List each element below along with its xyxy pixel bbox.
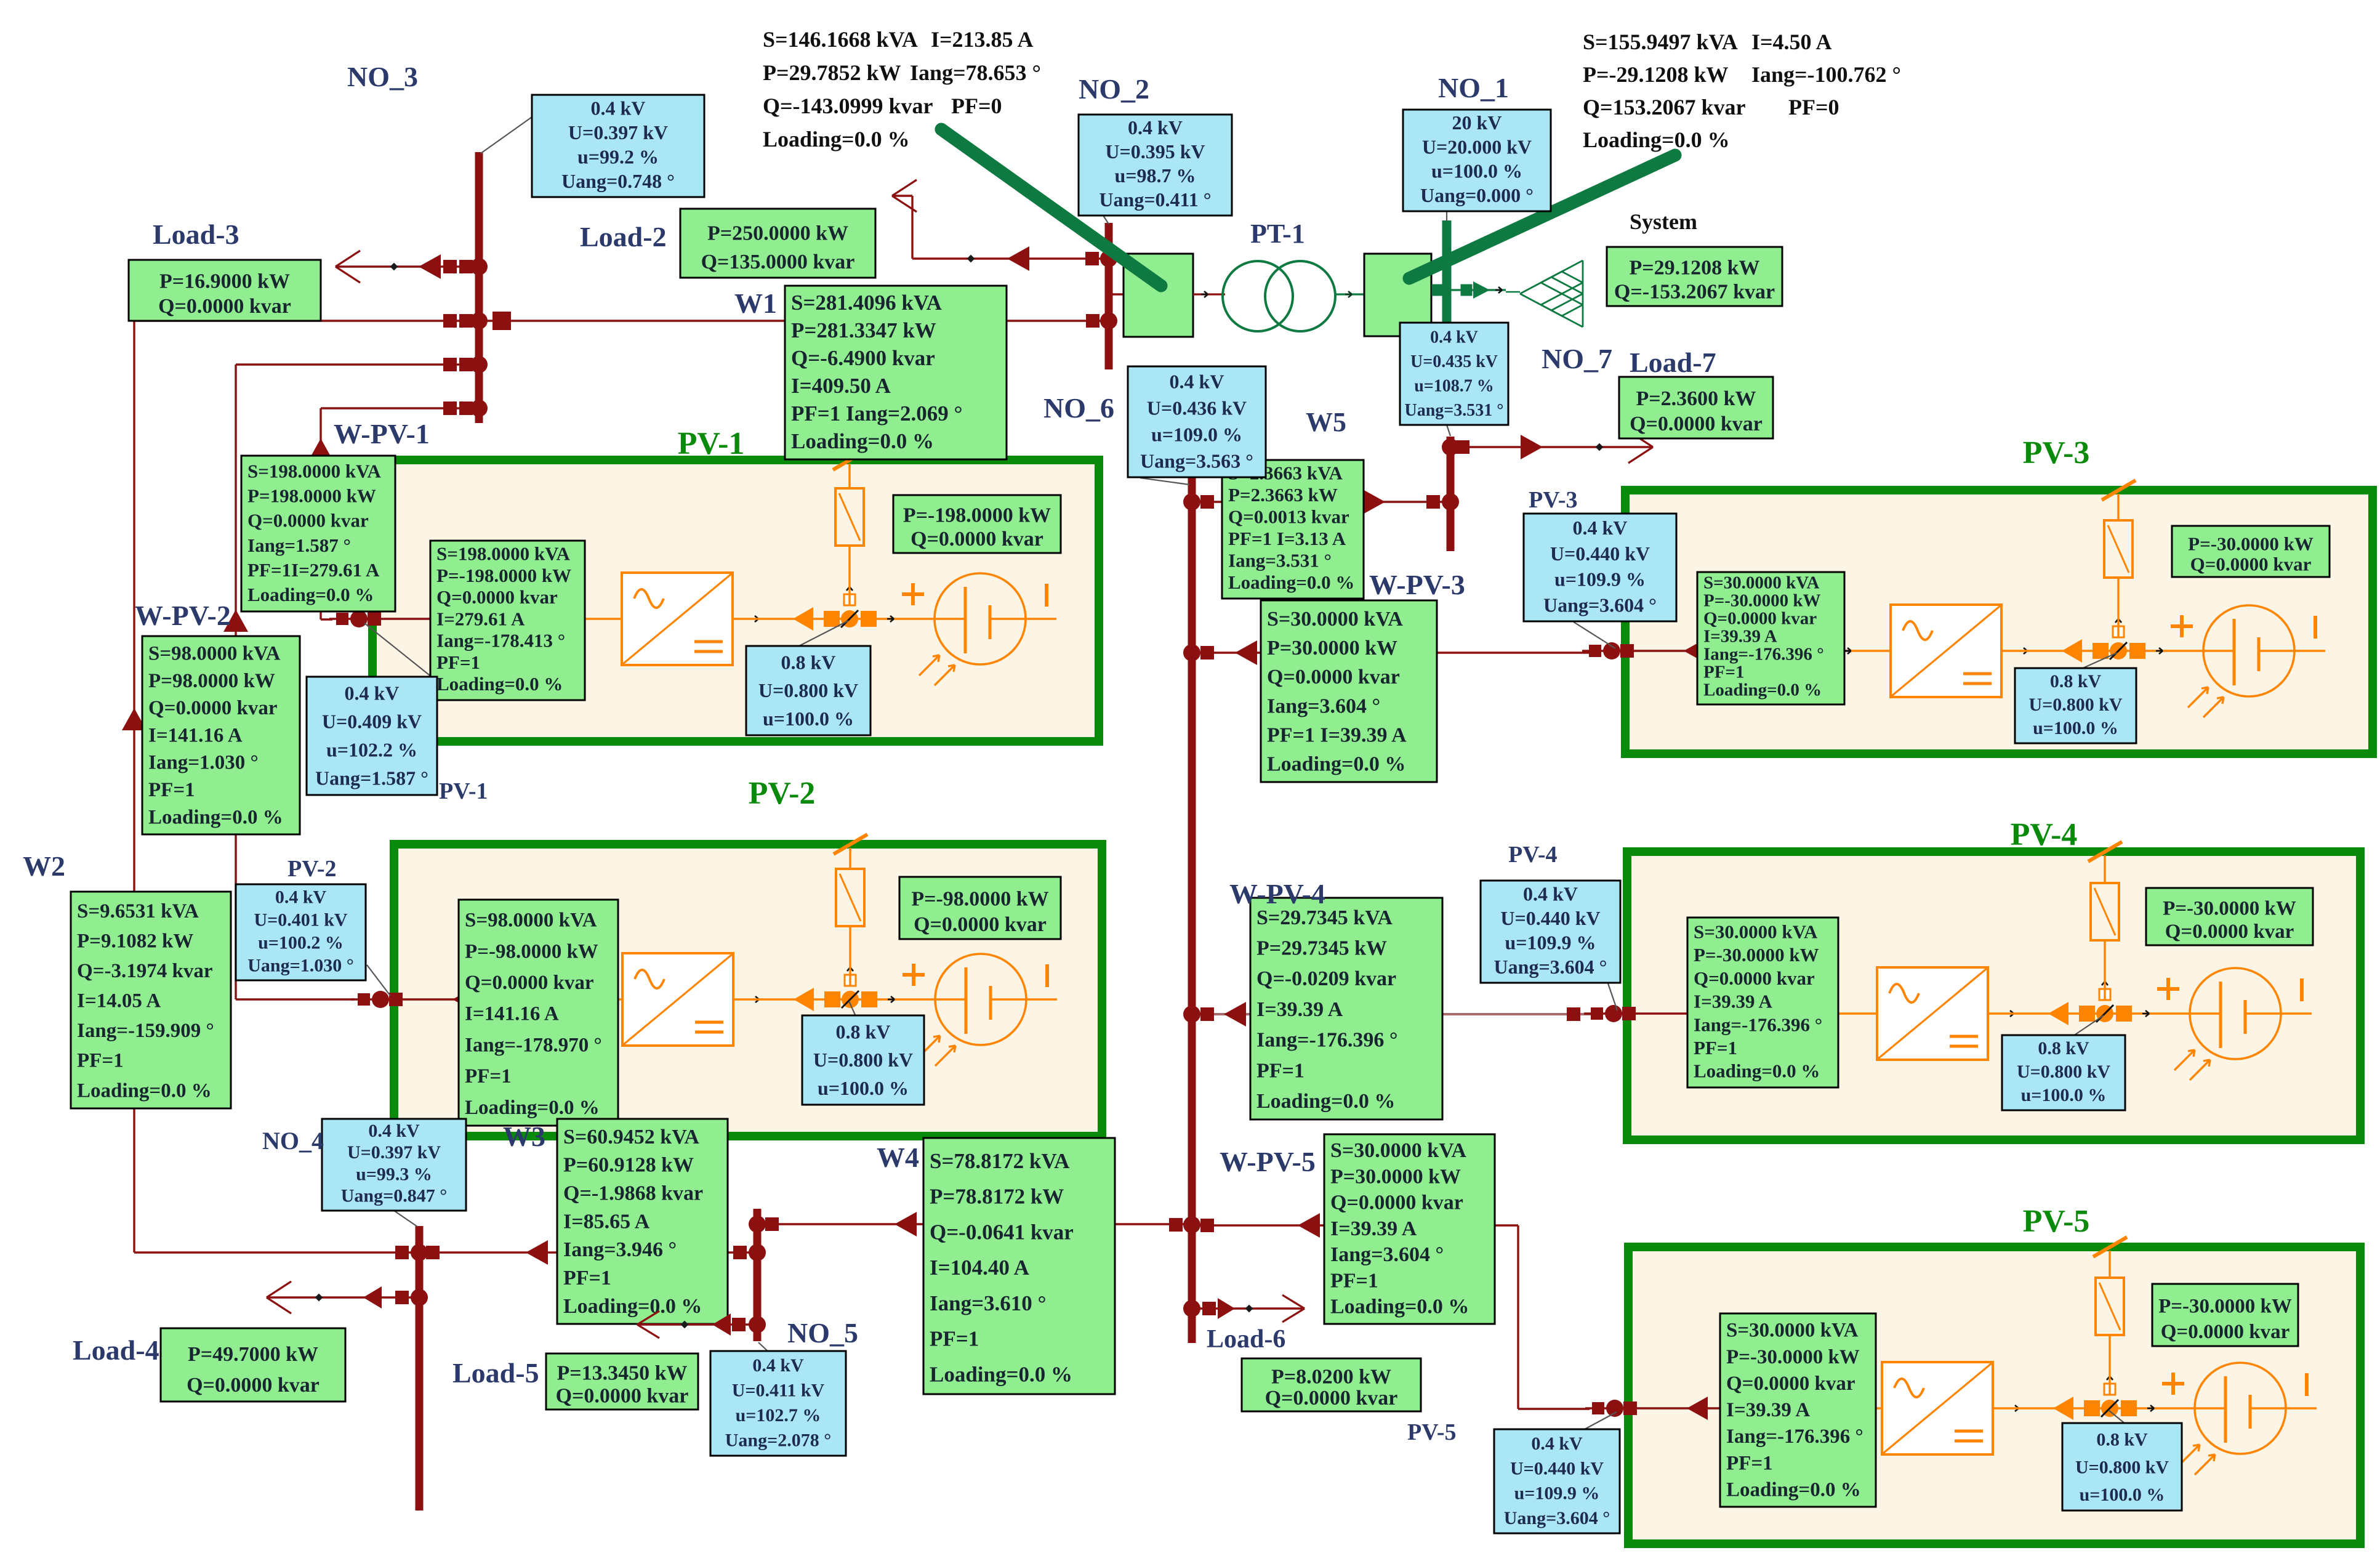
svg-text:W1: W1 — [734, 288, 777, 319]
svg-text:Q=0.0000 kvar: Q=0.0000 kvar — [465, 972, 593, 994]
svg-text:U=0.800 kV: U=0.800 kV — [813, 1049, 913, 1071]
leader PV-1 0.8kV — [798, 621, 848, 647]
leader PV-5 0.8kV — [2109, 1410, 2125, 1424]
svg-text:Q=0.0013 kvar: Q=0.0013 kvar — [1228, 506, 1349, 528]
wire PV-4 inverter to PV array — [2007, 1013, 2014, 1015]
value label PV-3 output — [1697, 572, 1844, 704]
arrow W-PV-2 direction — [223, 610, 248, 632]
bus NO_1 20kV — [1442, 220, 1452, 345]
svg-text:Load-4: Load-4 — [73, 1334, 159, 1366]
svg-text:Q=-1.9868 kvar: Q=-1.9868 kvar — [563, 1182, 703, 1204]
value label W-PV-4 — [1250, 898, 1442, 1119]
value label System — [1607, 247, 1782, 306]
svg-text:P=13.3450 kW: P=13.3450 kW — [557, 1362, 687, 1385]
voltage label NO_6 — [1128, 366, 1266, 477]
svg-text:Load-2: Load-2 — [580, 221, 667, 252]
svg-text:Loading=0.0 %: Loading=0.0 % — [1267, 753, 1405, 776]
svg-text:S=155.9497 kVA: S=155.9497 kVA — [1583, 30, 1738, 54]
svg-text:0.8 kV: 0.8 kV — [781, 651, 836, 673]
svg-text:PF=1: PF=1 — [1256, 1059, 1305, 1082]
svg-text:Uang=0.748 °: Uang=0.748 ° — [561, 170, 675, 192]
switch PV-5 disconnector slash — [2093, 1237, 2127, 1257]
svg-text:Loading=0.0 %: Loading=0.0 % — [1583, 127, 1730, 152]
current mark I PV-2 — [1045, 964, 1049, 987]
wire W4 NO_5 to NO_6 — [761, 1223, 1188, 1225]
value label W-PV-2 — [142, 636, 300, 834]
svg-text:20 kV: 20 kV — [1452, 111, 1502, 134]
leader PV-2 bus — [367, 965, 390, 996]
svg-text:I=39.39 A: I=39.39 A — [1703, 627, 1777, 647]
fuse PV-5 — [2096, 1278, 2124, 1335]
svg-text:0.4 kV: 0.4 kV — [368, 1121, 420, 1141]
svg-text:u=98.7 %: u=98.7 % — [1114, 164, 1196, 187]
svg-text:Loading=0.0 %: Loading=0.0 % — [1694, 1060, 1820, 1082]
svg-text:P=2.3663 kW: P=2.3663 kW — [1228, 484, 1338, 506]
svg-text:Q=0.0000 kvar: Q=0.0000 kvar — [148, 697, 277, 719]
svg-text:PV-1: PV-1 — [678, 426, 745, 461]
svg-text:S=98.0000 kVA: S=98.0000 kVA — [465, 910, 597, 932]
svg-text:0.4 kV: 0.4 kV — [1573, 517, 1628, 539]
node W4 at NO_5 — [765, 1217, 779, 1231]
fuse PV-3 — [2104, 520, 2133, 578]
svg-text:0.4 kV: 0.4 kV — [1128, 116, 1183, 139]
PV array source PV-2 — [935, 954, 1026, 1045]
svg-text:PF=1I=279.61 A: PF=1I=279.61 A — [247, 559, 380, 581]
terminal box PT-1 HV — [1364, 254, 1431, 336]
node PV-4 terminal junction — [1591, 1007, 1603, 1020]
wire W-PV-3 — [1196, 651, 1594, 653]
svg-text:I=104.40 A: I=104.40 A — [930, 1256, 1030, 1280]
voltage label PV-4 LV — [1481, 881, 1620, 983]
svg-text:S=60.9452 kVA: S=60.9452 kVA — [563, 1126, 699, 1148]
value label Load-6 — [1242, 1358, 1421, 1411]
arrow PV-5 power flow — [1687, 1397, 1708, 1420]
svg-text:Iang=-176.396 °: Iang=-176.396 ° — [1703, 645, 1824, 664]
svg-text:Loading=0.0 %: Loading=0.0 % — [1228, 571, 1354, 593]
wire PV-5 riser — [2109, 1251, 2110, 1395]
PV enclosure PV-5 — [1628, 1247, 2360, 1544]
svg-text:PV-4: PV-4 — [1508, 842, 1558, 868]
svg-text:0.4 kV: 0.4 kV — [1170, 370, 1224, 392]
svg-text:W3: W3 — [503, 1121, 545, 1152]
svg-text:Q=-153.2067 kvar: Q=-153.2067 kvar — [1614, 281, 1775, 304]
value label Load-5 — [546, 1353, 698, 1410]
svg-text:U=0.411 kV: U=0.411 kV — [732, 1381, 825, 1401]
svg-text:P=-29.1208 kW: P=-29.1208 kW — [1583, 62, 1729, 87]
node W-PV-1 at NO_3 — [443, 401, 457, 415]
bus NO_5 — [754, 1209, 762, 1341]
svg-text:Q=0.0000 kvar: Q=0.0000 kvar — [1267, 666, 1400, 688]
svg-text:Q=0.0000 kvar: Q=0.0000 kvar — [436, 586, 558, 608]
arrow W5 direction — [1363, 490, 1385, 514]
external grid symbol System — [1520, 260, 1583, 294]
svg-text:PF=0: PF=0 — [951, 94, 1002, 118]
arrow PV-2 power flow — [452, 988, 473, 1011]
switch PV-4 junction — [2048, 1002, 2068, 1025]
svg-text:Uang=2.078 °: Uang=2.078 ° — [725, 1430, 831, 1451]
wire W-PV-5 elbow — [1495, 1224, 1518, 1226]
wire W2 vertical — [133, 321, 135, 1252]
wire PV-1 riser — [848, 464, 850, 605]
svg-text:P=29.1208 kW: P=29.1208 kW — [1629, 256, 1759, 279]
wire PV-1 inverter to PV array — [752, 618, 758, 620]
value label PV-1 P/Q — [893, 495, 1061, 553]
svg-text:U=0.395 kV: U=0.395 kV — [1105, 140, 1205, 163]
arrow W2 direction — [122, 708, 147, 730]
sun rays PV-5 — [2179, 1445, 2200, 1465]
svg-text:PF=1: PF=1 — [563, 1267, 611, 1289]
svg-text:PF=1: PF=1 — [148, 779, 195, 801]
voltage label PV-2 0.8kV — [802, 1015, 924, 1105]
voltage label PV-3 0.8kV — [2015, 668, 2136, 743]
svg-text:u=100.2 %: u=100.2 % — [258, 932, 344, 953]
svg-text:Uang=0.000 °: Uang=0.000 ° — [1420, 184, 1534, 206]
wire W1 NO_3 to NO_2 — [483, 320, 1105, 321]
leader NO_5 — [758, 1342, 768, 1352]
plus polarity mark PV-3 — [2171, 624, 2193, 628]
breaker W-PV-4 mid — [1567, 1007, 1580, 1021]
svg-text:Q=135.0000 kvar: Q=135.0000 kvar — [701, 251, 855, 273]
out-of-service slash at NO_1 — [1409, 155, 1675, 278]
svg-text:PV-5: PV-5 — [2023, 1204, 2090, 1239]
svg-text:Uang=0.847 °: Uang=0.847 ° — [341, 1186, 447, 1206]
svg-text:P=60.9128 kW: P=60.9128 kW — [563, 1154, 694, 1177]
node W3 at NO_5 — [733, 1246, 747, 1259]
wire PV-2 inverter to PV array — [752, 999, 759, 1001]
svg-text:u=109.0 %: u=109.0 % — [1151, 423, 1242, 445]
svg-text:PV-2: PV-2 — [287, 856, 337, 882]
leader NO_6 — [1140, 478, 1189, 485]
wire Load-2 feeder arrow — [912, 257, 1107, 259]
leader NO_4 — [394, 1211, 417, 1227]
svg-text:u=109.9 %: u=109.9 % — [1505, 931, 1596, 953]
svg-text:System: System — [1630, 209, 1697, 234]
wire PV-5 inverter to PV array — [2012, 1408, 2019, 1410]
voltage label PV-2 LV — [236, 884, 366, 980]
svg-text:Uang=1.587 °: Uang=1.587 ° — [315, 767, 428, 789]
sun rays PV-4 — [2174, 1050, 2195, 1070]
svg-text:u=102.7 %: u=102.7 % — [736, 1405, 821, 1426]
transformer PT-1 winding 2 — [1265, 261, 1335, 331]
svg-text:u=109.9 %: u=109.9 % — [1554, 568, 1646, 591]
arrow PV-1 power flow — [431, 607, 452, 631]
voltage label NO_5 — [710, 1351, 846, 1456]
svg-text:P=8.0200 kW: P=8.0200 kW — [1271, 1366, 1391, 1389]
value label Load-4 — [161, 1328, 345, 1402]
current mark I PV-3 — [2314, 616, 2317, 639]
svg-text:0.4 kV: 0.4 kV — [345, 682, 400, 704]
leader NO_3 — [481, 117, 532, 153]
voltage label NO_7 — [1400, 323, 1508, 425]
bus NO_4 — [416, 1226, 424, 1511]
svg-text:PV-3: PV-3 — [2023, 435, 2090, 470]
switch PV-2 junction — [794, 988, 814, 1011]
arrow W-PV-4 direction — [1224, 1002, 1246, 1027]
switch PV-4 disconnector slash — [2088, 842, 2122, 861]
arrow W-PV-5 direction — [1298, 1213, 1320, 1238]
arrow W4 direction — [895, 1212, 917, 1236]
svg-text:P=-30.0000 kW: P=-30.0000 kW — [1694, 944, 1819, 966]
PV enclosure PV-4 — [1627, 852, 2360, 1140]
svg-text:Loading=0.0 %: Loading=0.0 % — [1703, 680, 1822, 700]
value label W5 — [1222, 460, 1364, 599]
leader PV-3 0.8kV — [2076, 653, 2117, 671]
breaker W1 at NO_3 — [492, 312, 511, 330]
svg-text:P=-98.0000 kW: P=-98.0000 kW — [465, 940, 598, 962]
svg-text:Uang=3.604 °: Uang=3.604 ° — [1543, 594, 1657, 616]
svg-text:U=0.440 kV: U=0.440 kV — [1510, 1458, 1604, 1478]
svg-text:U=0.401 kV: U=0.401 kV — [254, 910, 347, 930]
svg-text:PF=1 I=39.39 A: PF=1 I=39.39 A — [1267, 724, 1407, 746]
wire W-PV-1 to PV-1 — [321, 618, 332, 620]
svg-text:U=0.440 kV: U=0.440 kV — [1500, 907, 1600, 929]
svg-text:0.4 kV: 0.4 kV — [1523, 882, 1578, 905]
wire PV-4 LV connection — [1584, 1012, 1838, 1014]
leader PV-4 bus — [1608, 983, 1617, 1010]
fuse PV-2 — [836, 869, 864, 926]
svg-text:S=9.6531 kVA: S=9.6531 kVA — [77, 900, 199, 922]
voltage label PV-1 0.8kV — [746, 646, 870, 735]
wire W3 NO_4 to NO_5 — [423, 1251, 755, 1253]
svg-text:Q=0.0000 kvar: Q=0.0000 kvar — [247, 510, 369, 531]
svg-text:P=2.3600 kW: P=2.3600 kW — [1636, 387, 1756, 410]
value label PV-5 P/Q — [2152, 1284, 2298, 1346]
svg-text:PF=1 I=3.13 A: PF=1 I=3.13 A — [1228, 528, 1346, 549]
svg-text:S=29.7345 kVA: S=29.7345 kVA — [1256, 906, 1393, 929]
svg-text:P=-30.0000 kW: P=-30.0000 kW — [1726, 1346, 1860, 1368]
svg-text:Q=-3.1974 kvar: Q=-3.1974 kvar — [77, 960, 212, 982]
value label PV-2 P/Q — [899, 877, 1061, 939]
svg-text:Iang=1.587 °: Iang=1.587 ° — [247, 534, 351, 556]
svg-text:Iang=-100.762 °: Iang=-100.762 ° — [1751, 62, 1901, 87]
leader NO_2 — [1103, 216, 1109, 224]
value label PV-4 output — [1687, 918, 1838, 1087]
svg-text:W2: W2 — [23, 850, 65, 882]
node W-PV-2 at NO_3 — [443, 358, 457, 371]
svg-text:I=409.50 A: I=409.50 A — [791, 374, 891, 398]
bus NO_7 — [1447, 437, 1455, 551]
wire W-PV-1 horizontal — [321, 407, 475, 409]
leader NO_7 — [1447, 425, 1450, 436]
svg-text:Uang=3.604 °: Uang=3.604 ° — [1494, 956, 1607, 978]
sun rays PV-1 — [919, 655, 939, 676]
value label Load-7 — [1619, 377, 1773, 438]
svg-text:P=29.7345 kW: P=29.7345 kW — [1256, 937, 1387, 959]
svg-text:Q=-143.0999 kvar: Q=-143.0999 kvar — [763, 94, 933, 118]
terminal box PT-1 LV — [1124, 254, 1193, 337]
node PV-2 terminal junction — [358, 993, 370, 1006]
wire PV-3 LV connection — [1582, 650, 1851, 651]
svg-text:NO_5: NO_5 — [787, 1317, 858, 1349]
svg-text:u=99.2 %: u=99.2 % — [577, 145, 659, 167]
switch PV-2 disconnector slash — [834, 834, 867, 854]
svg-text:PF=1: PF=1 — [436, 651, 480, 673]
svg-text:P=-30.0000 kW: P=-30.0000 kW — [1703, 591, 1821, 611]
svg-text:S=30.0000 kVA: S=30.0000 kVA — [1694, 921, 1818, 942]
svg-text:Q=0.0000 kvar: Q=0.0000 kvar — [1703, 609, 1817, 629]
svg-text:Load-6: Load-6 — [1207, 1325, 1285, 1353]
svg-text:PV-4: PV-4 — [2011, 817, 2078, 852]
svg-text:P=29.7852 kW: P=29.7852 kW — [763, 60, 901, 85]
svg-text:u=108.7 %: u=108.7 % — [1414, 376, 1494, 395]
sun rays PV-2 — [920, 1036, 940, 1056]
svg-text:I=39.39 A: I=39.39 A — [1330, 1217, 1417, 1240]
svg-text:NO_4: NO_4 — [262, 1127, 324, 1155]
svg-text:Q=0.0000 kvar: Q=0.0000 kvar — [914, 913, 1047, 936]
node PV-1 terminal junction — [336, 613, 348, 625]
svg-text:P=-198.0000 kW: P=-198.0000 kW — [903, 504, 1051, 527]
svg-text:I=279.61 A: I=279.61 A — [436, 608, 525, 629]
voltage label PV-5 0.8kV — [2062, 1423, 2182, 1511]
inverter PV-2 — [622, 953, 733, 1046]
svg-text:P=-30.0000 kW: P=-30.0000 kW — [2158, 1295, 2292, 1317]
svg-text:Q=0.0000 kvar: Q=0.0000 kvar — [2161, 1321, 2290, 1343]
wire PV-1 DC/AC link — [576, 618, 582, 620]
PV array source PV-4 — [2190, 968, 2281, 1059]
svg-text:PF=1: PF=1 — [1726, 1452, 1773, 1474]
wire W5 NO_6 to NO_7 — [1196, 501, 1448, 502]
leader PV-3 bus — [1574, 622, 1615, 648]
svg-text:U=0.800 kV: U=0.800 kV — [2028, 695, 2122, 715]
bus NO_6 — [1188, 477, 1196, 1343]
svg-text:S=198.0000 kVA: S=198.0000 kVA — [436, 543, 571, 565]
svg-text:PV-3: PV-3 — [1529, 487, 1578, 513]
svg-text:S=198.0000 kVA: S=198.0000 kVA — [247, 460, 382, 482]
wire W-PV-2 vertical — [235, 365, 236, 999]
leader PV-4 0.8kV — [2073, 1015, 2104, 1036]
svg-text:0.8 kV: 0.8 kV — [836, 1020, 891, 1043]
svg-text:W-PV-2: W-PV-2 — [135, 600, 231, 631]
PV array source PV-3 — [2203, 605, 2294, 696]
svg-text:PF=0: PF=0 — [1788, 95, 1839, 119]
svg-text:NO_3: NO_3 — [347, 61, 418, 92]
svg-text:u=109.9 %: u=109.9 % — [1514, 1483, 1600, 1504]
svg-text:Loading=0.0 %: Loading=0.0 % — [465, 1097, 600, 1119]
svg-text:Uang=3.604 °: Uang=3.604 ° — [1504, 1508, 1610, 1528]
svg-text:Load-3: Load-3 — [153, 219, 239, 250]
value label W1 — [785, 286, 1007, 459]
svg-text:P=78.8172 kW: P=78.8172 kW — [930, 1185, 1064, 1209]
PV array source PV-1 — [935, 573, 1026, 664]
svg-text:Loading=0.0 %: Loading=0.0 % — [930, 1362, 1072, 1386]
inverter PV-4 — [1877, 967, 1988, 1060]
voltage label NO_3 — [532, 95, 704, 197]
svg-text:W-PV-1: W-PV-1 — [334, 418, 430, 450]
svg-text:W5: W5 — [1306, 407, 1346, 437]
svg-text:Iang=3.946 °: Iang=3.946 ° — [563, 1238, 677, 1261]
value label PV-5 output — [1720, 1313, 1876, 1507]
svg-text:NO_2: NO_2 — [1079, 73, 1149, 105]
wire PV-3 riser — [2117, 494, 2119, 637]
switch PV-3 junction — [2062, 639, 2082, 663]
wire Load-5 feeder arrow — [637, 1323, 755, 1325]
wire PV-4 DC/AC link — [1831, 1013, 1838, 1015]
svg-text:U=0.397 kV: U=0.397 kV — [347, 1142, 441, 1163]
wire W-PV-2 horizontal — [236, 363, 475, 365]
value label W-PV-5 — [1324, 1134, 1495, 1324]
value label W-PV-1 — [241, 456, 395, 611]
value label W2 — [71, 892, 231, 1108]
inverter PV-3 — [1891, 605, 2001, 697]
svg-text:I=213.85 A: I=213.85 A — [931, 27, 1034, 52]
node PV-3 terminal junction — [1589, 645, 1601, 657]
svg-text:u=100.0 %: u=100.0 % — [763, 708, 854, 730]
sun rays PV-3 — [2188, 687, 2208, 708]
svg-text:Q=0.0000 kvar: Q=0.0000 kvar — [187, 1374, 320, 1397]
PV array source PV-5 — [2195, 1363, 2286, 1454]
svg-text:S=30.0000 kVA: S=30.0000 kVA — [1267, 608, 1403, 631]
svg-text:Loading=0.0 %: Loading=0.0 % — [563, 1295, 702, 1318]
svg-text:0.4 kV: 0.4 kV — [275, 887, 327, 907]
svg-text:U=0.440 kV: U=0.440 kV — [1550, 543, 1650, 565]
svg-text:PF=1: PF=1 — [465, 1065, 512, 1087]
wire PT-1 HV stub — [1335, 293, 1365, 295]
svg-text:Q=0.0000 kvar: Q=0.0000 kvar — [158, 295, 291, 318]
voltage label PV-1 LV — [307, 677, 437, 795]
PV enclosure PV-1 — [372, 460, 1099, 741]
fuse PV-4 — [2091, 883, 2119, 940]
svg-text:P=16.9000 kW: P=16.9000 kW — [159, 270, 290, 293]
svg-text:I=141.16 A: I=141.16 A — [148, 724, 243, 746]
svg-text:Loading=0.0 %: Loading=0.0 % — [791, 429, 934, 453]
svg-text:P=-30.0000 kW: P=-30.0000 kW — [2163, 897, 2296, 919]
svg-text:U=0.436 kV: U=0.436 kV — [1147, 397, 1247, 419]
current mark I PV-4 — [2300, 978, 2304, 1001]
switch PV-3 disconnector slash — [2102, 480, 2136, 500]
svg-text:S=30.0000 kVA: S=30.0000 kVA — [1703, 573, 1819, 593]
svg-text:U=0.800 kV: U=0.800 kV — [2075, 1457, 2169, 1477]
svg-text:Loading=0.0 %: Loading=0.0 % — [247, 584, 374, 605]
svg-text:0.8 kV: 0.8 kV — [2096, 1430, 2148, 1450]
svg-text:PF=1: PF=1 — [1694, 1037, 1737, 1059]
svg-text:I=85.65 A: I=85.65 A — [563, 1210, 650, 1233]
voltage label NO_2 — [1079, 115, 1232, 216]
voltage label NO_4 — [322, 1119, 466, 1211]
svg-text:PF=1: PF=1 — [1703, 663, 1744, 682]
svg-text:0.4 kV: 0.4 kV — [752, 1355, 804, 1376]
svg-text:Iang=-176.396 °: Iang=-176.396 ° — [1694, 1014, 1822, 1035]
wire Load-6 feeder arrow — [1196, 1307, 1305, 1309]
svg-text:P=-98.0000 kW: P=-98.0000 kW — [911, 887, 1048, 910]
svg-text:PT-1: PT-1 — [1250, 219, 1305, 249]
svg-text:Load-5: Load-5 — [452, 1357, 539, 1389]
svg-text:Iang=1.030 °: Iang=1.030 ° — [148, 752, 259, 774]
svg-text:U=0.800 kV: U=0.800 kV — [758, 679, 858, 701]
wire PV-5 LV connection — [1585, 1407, 1843, 1409]
node W2 at NO_4 — [395, 1246, 409, 1259]
fuse PV-1 — [835, 488, 864, 546]
svg-text:W-PV-4: W-PV-4 — [1229, 878, 1325, 910]
svg-text:Q=-6.4900 kvar: Q=-6.4900 kvar — [791, 346, 935, 370]
value label PV-3 P/Q — [2172, 526, 2330, 577]
wire W-PV-1 vertical — [320, 408, 321, 619]
wire PT-1 LV stub — [1193, 293, 1225, 295]
svg-text:Load-7: Load-7 — [1630, 347, 1716, 378]
svg-text:Q=0.0000 kvar: Q=0.0000 kvar — [1630, 413, 1763, 435]
svg-text:PV-1: PV-1 — [439, 778, 488, 804]
svg-text:0.4 kV: 0.4 kV — [591, 97, 646, 119]
switch PV-1 disconnector slash — [833, 450, 867, 470]
svg-text:U=0.397 kV: U=0.397 kV — [568, 121, 668, 143]
svg-text:Q=0.0000 kvar: Q=0.0000 kvar — [1265, 1387, 1398, 1410]
leader PV-1 bus — [364, 623, 432, 677]
svg-text:Iang=-176.396 °: Iang=-176.396 ° — [1256, 1029, 1397, 1052]
breaker W1 at NO_2 — [1086, 314, 1100, 328]
switch PV-5 junction — [2053, 1397, 2073, 1420]
svg-text:NO_1: NO_1 — [1438, 72, 1509, 103]
svg-text:P=-198.0000 kW: P=-198.0000 kW — [436, 565, 571, 586]
svg-text:I=14.05 A: I=14.05 A — [77, 990, 161, 1012]
